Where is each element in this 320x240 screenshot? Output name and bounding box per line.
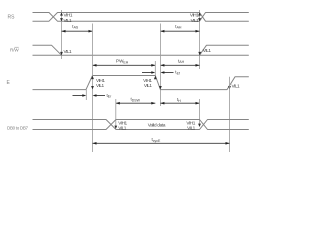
VIL1 level arrow down on V8 — [198, 18, 201, 21]
signal E waveform — [33, 76, 249, 90]
VIL1 level arrow down at R/W fall — [60, 52, 63, 55]
svg-text:VIL1: VIL1 — [96, 83, 105, 88]
signal DB bus rail crossing down — [33, 120, 249, 130]
VIL1 level arrow down at E fall — [159, 86, 162, 89]
svg-text:VIL1: VIL1 — [144, 83, 153, 88]
svg-text:tEr: tEr — [107, 93, 113, 99]
arrow tEf left stub — [142, 72, 152, 74]
arrow tcycE — [93, 142, 230, 144]
svg-text:RS: RS — [8, 14, 16, 20]
VIH1 level arrow up on V8 — [198, 12, 201, 15]
VIH1 level arrow up on V2 — [91, 76, 94, 79]
arrow PWEH — [93, 64, 156, 66]
VIL1 level arrow down on V2 — [91, 86, 94, 89]
measure vertical V3 at E rise start — [85, 90, 87, 100]
signal R/W high rail left with falling edge — [33, 45, 62, 55]
svg-text:VIH1: VIH1 — [190, 13, 199, 18]
svg-text:Valid data: Valid data — [148, 122, 166, 127]
VIL1 level arrow down at R/W rise — [198, 52, 201, 55]
measure vertical V4 at DB valid start — [115, 99, 117, 126]
signal R/W rising edge with right high rail — [200, 45, 249, 55]
measure vertical V5 at E fall start — [154, 61, 156, 76]
signal R/W low rail — [33, 54, 249, 56]
svg-text:VIL1: VIL1 — [64, 49, 73, 54]
svg-text:tAH: tAH — [175, 24, 182, 30]
svg-text:VIL1: VIL1 — [64, 18, 73, 23]
arrow tH — [160, 102, 199, 104]
measure vertical V8 at RS right transition — [199, 10, 201, 69]
signal RS bus rail crossing down — [33, 13, 249, 22]
svg-text:VIL1: VIL1 — [232, 84, 241, 89]
measure vertical V7 at DB valid end — [199, 99, 201, 124]
VIH1 level arrow up at E fall — [154, 76, 157, 79]
svg-text:VIL1: VIL1 — [187, 125, 196, 130]
VIL1 level arrow down on V1 — [60, 18, 63, 21]
VIL1 level arrow down at E second rise — [228, 86, 231, 89]
svg-text:PWEH: PWEH — [116, 59, 129, 65]
arrow down on V4 — [114, 126, 117, 129]
signal RS bus rail crossing up — [33, 13, 249, 22]
svg-text:VIL1: VIL1 — [191, 18, 200, 23]
svg-text:R/W: R/W — [10, 48, 19, 53]
svg-text:tAH: tAH — [178, 58, 185, 64]
measure vertical V2 at E rise — [92, 24, 94, 153]
svg-text:tEf: tEf — [175, 70, 180, 76]
arrow tAH top — [160, 30, 199, 32]
svg-text:DB0 to DB7: DB0 to DB7 — [7, 125, 29, 130]
svg-text:tAS: tAS — [72, 24, 79, 30]
svg-text:VIL1: VIL1 — [203, 48, 212, 53]
svg-text:VIH1: VIH1 — [64, 13, 73, 18]
measure vertical V9 at E second rise — [229, 77, 231, 152]
arrow tAH mid — [160, 64, 199, 66]
svg-text:tDSW: tDSW — [131, 97, 141, 103]
VIH1 level arrow up on V1 — [60, 12, 63, 15]
svg-text:tH: tH — [177, 97, 181, 103]
overline over W — [14, 46, 18, 48]
measure vertical V6 at E fall end — [159, 24, 161, 107]
arrow tAS — [62, 30, 93, 32]
arrow tEf right stub — [164, 72, 174, 74]
arrow tDSW — [116, 102, 156, 104]
arrow down on V7 — [198, 124, 201, 127]
svg-text:tcycE: tcycE — [152, 137, 162, 143]
measure vertical V1 at RS left transition — [61, 10, 63, 59]
signal DB bus rail crossing up — [33, 120, 249, 130]
arrow tEr right stub — [96, 95, 105, 97]
svg-text:VIL1: VIL1 — [118, 125, 127, 130]
arrow tEr left stub — [73, 95, 83, 97]
